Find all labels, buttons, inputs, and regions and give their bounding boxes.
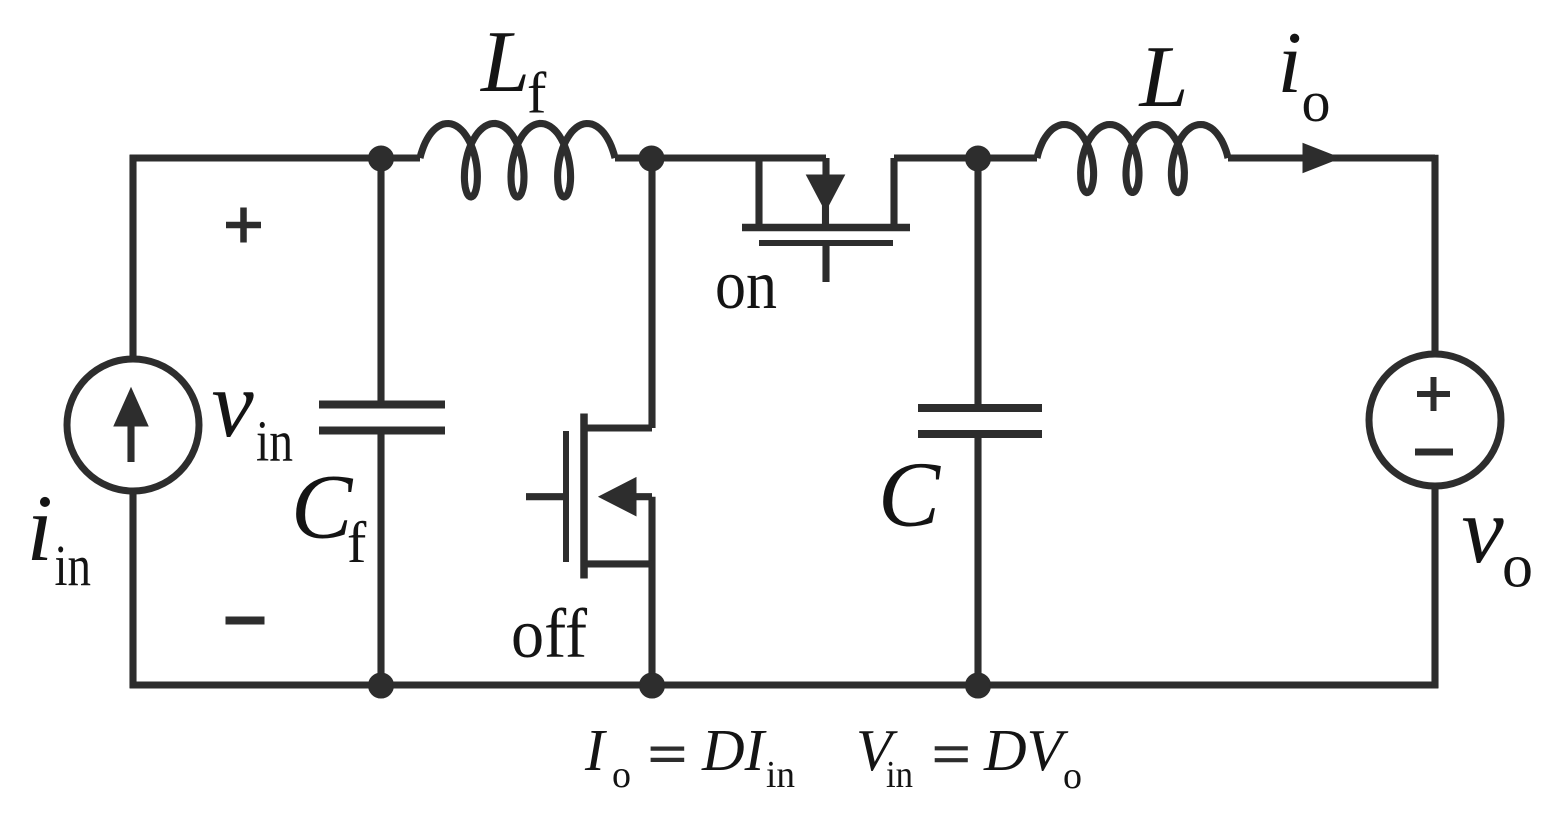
svg-text:C: C [291,456,354,558]
svg-text:o: o [1063,755,1082,797]
svg-text:o: o [1502,533,1533,601]
svg-text:DV: DV [983,717,1069,783]
svg-text:i: i [1278,15,1302,112]
svg-text:in: in [886,754,913,796]
svg-text:off: off [511,596,588,673]
svg-text:on: on [715,247,777,324]
svg-text:f: f [347,510,367,575]
svg-text:v: v [1462,477,1505,583]
svg-text:in: in [55,533,92,598]
svg-text:L: L [479,14,530,111]
svg-text:C: C [878,444,941,547]
svg-text:f: f [527,61,547,126]
svg-text:i: i [27,475,53,581]
svg-text:I: I [584,717,607,783]
svg-text:o: o [612,754,631,796]
svg-text:v: v [212,351,255,457]
svg-text:in: in [766,754,795,796]
svg-text:in: in [256,409,293,474]
svg-text:o: o [1302,69,1331,134]
svg-text:DI: DI [701,717,767,783]
svg-text:L: L [1138,29,1189,126]
